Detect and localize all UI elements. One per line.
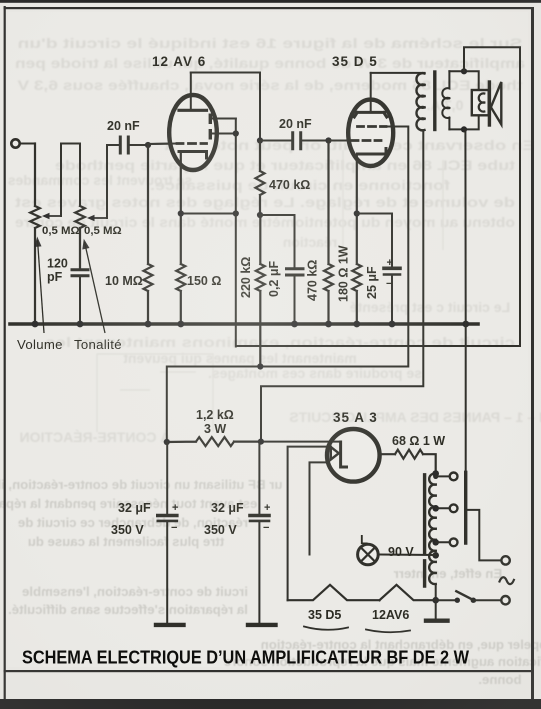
V2 plate: [354, 112, 386, 117]
V1 plate: [179, 109, 207, 112]
wire heater junction to switch: [436, 599, 455, 601]
wire C1 to bus: [79, 277, 81, 324]
tube V1 12AV6 envelope: [169, 95, 217, 170]
svg-text:35 A 3: 35 A 3: [333, 410, 378, 425]
svg-text:1,2 kΩ: 1,2 kΩ: [196, 408, 234, 422]
ground bus: [10, 322, 478, 326]
svg-text:470 kΩ: 470 kΩ: [269, 178, 310, 192]
svg-text:de volume et de réglage. Le ré: de volume et de réglage. Le réglage des …: [15, 194, 515, 210]
LS1 diaphragm bar: [488, 82, 491, 125]
capacitor C1 120 pF: [72, 270, 88, 276]
svg-text:180 Ω 1W: 180 Ω 1W: [337, 245, 351, 302]
svg-text:amplificateur de 3 W de bonne: amplificateur de 3 W de bonne qualité, q…: [15, 55, 525, 71]
svg-text:20 nF: 20 nF: [107, 119, 140, 133]
arrow Volume: [38, 240, 45, 333]
svg-text:tube ECL 86 en amplificateur e: tube ECL 86 en amplificateur et que la p…: [55, 157, 515, 173]
top black bar: [0, 0, 541, 3]
output transformer T1 primary winding: [416, 73, 424, 130]
filter capacitor C7 32 uF 350 V: [258, 442, 260, 514]
svg-text:32 μF: 32 μF: [118, 501, 151, 515]
V3 anode triangle: [331, 447, 339, 460]
svg-text:−: −: [386, 278, 392, 290]
V1 plate lead: [190, 73, 192, 111]
svg-text:220 kΩ: 220 kΩ: [239, 257, 253, 298]
svg-text:68 Ω 1 W: 68 Ω 1 W: [392, 434, 445, 448]
wire C3 to 35D5 grid node: [302, 140, 329, 142]
resistor R4 220 kohm (B+ feed): [256, 215, 265, 367]
input jack J1: [11, 139, 19, 147]
heater string: 12AV6 heater: [380, 585, 436, 600]
autotransformer T2 winding: [429, 473, 436, 584]
svg-text:−: −: [263, 522, 269, 534]
svg-text:thode ECL 86 moderne, de la sé: thode ECL 86 moderne, de la série noval,…: [17, 77, 523, 93]
frame top: [4, 7, 534, 9]
svg-text:Le circuit c est présenté: Le circuit c est présenté: [350, 299, 511, 315]
faint ghost figure outlines from reverse page: [97, 150, 443, 432]
V2 screen grid g2 (dashed): [358, 125, 387, 128]
T1 primary bottom lead to B+ raw: [261, 130, 423, 442]
V3 cathode bar: [341, 442, 347, 467]
svg-text:150 Ω: 150 Ω: [187, 274, 221, 288]
resistor R8 68 ohm 1W: [380, 450, 436, 474]
bottom black bar: [0, 699, 541, 709]
arrow Tonalite: [85, 242, 106, 333]
LS1 cone: [491, 82, 501, 124]
potentiometer P1 Volume 0,5 Mohm: [30, 144, 40, 325]
capacitor C3 20 nF: [293, 133, 301, 149]
svg-text:Volume: Volume: [17, 337, 63, 352]
T1 secondary winding + loop: [442, 71, 449, 129]
chassis ground C7: [248, 623, 276, 627]
svg-text:32 μF: 32 μF: [211, 501, 244, 515]
resistor R5 470 kohm (grid leak 35D5): [324, 141, 333, 325]
filter capacitor C6 32 uF 350 V: [166, 442, 168, 514]
T2 tap 3: [432, 539, 439, 546]
frame left: [4, 6, 6, 700]
svg-text:350 V: 350 V: [204, 523, 237, 537]
T2 tap 1: [433, 474, 438, 479]
svg-text:Sur le schéma de la figure 16: Sur le schéma de la figure 16 est indiqu…: [18, 35, 523, 51]
svg-text:20 nF: 20 nF: [279, 117, 312, 131]
T1 core: [433, 72, 436, 130]
resistor R3 470 kohm (plate load): [256, 141, 265, 216]
V2 cathode lead / resistor R6 180 ohm 1W: [352, 155, 361, 324]
wiper arrow P2: [90, 217, 107, 219]
svg-text:0,2 μF: 0,2 μF: [267, 261, 281, 297]
switch S1: [455, 598, 460, 603]
B+ raw wire (rectifier cathode to filter): [261, 441, 341, 443]
svg-text:120: 120: [47, 257, 68, 271]
wire 35D5 plate to output transformer: [371, 72, 425, 74]
wire C2 to grid node: [130, 144, 148, 146]
svg-text:0,5 MΩ: 0,5 MΩ: [42, 225, 80, 237]
svg-text:L: L: [360, 532, 368, 547]
filter resistor R7 1,2 kohm 3W: [167, 437, 261, 446]
bus junction dots: [32, 321, 470, 328]
svg-text:+: +: [264, 502, 270, 514]
V2 cathode: [358, 149, 387, 155]
svg-text:En effet, en interr: En effet, en interr: [394, 566, 502, 581]
rectifier V3 35A3 envelope: [327, 429, 380, 482]
potentiometer P2 Tonalite 0,5 Mohm: [75, 206, 85, 268]
wire C4 to bus: [294, 276, 296, 324]
svg-text:maintenant les pannes qui peuv: maintenant les pannes qui peuvent: [123, 350, 357, 366]
capacitor C2 20 nF: [120, 137, 128, 153]
svg-text:90 V: 90 V: [388, 545, 414, 559]
svg-text:Tonalité: Tonalité: [74, 337, 122, 352]
chassis ground C6: [156, 623, 184, 627]
capacitor C5 25 uF electrolytic: [384, 266, 400, 270]
chassis ground T2: [435, 600, 437, 618]
wire P2 wiper to C2: [107, 145, 119, 218]
svg-text:350 V: 350 V: [111, 523, 144, 537]
V1 cathode: [179, 152, 207, 159]
svg-text:pF: pF: [47, 270, 63, 284]
heater string: 35D5 heater: [288, 585, 380, 600]
V2 control grid g1 (dashed): [352, 139, 381, 142]
V1 diode plates: [209, 114, 212, 140]
wire cathode to C5: [357, 214, 392, 268]
mains terminal bottom: [501, 596, 509, 604]
wire V1 plate to plate-feed column: [191, 73, 260, 141]
feedback line secondary to V1 diode plates: [236, 47, 520, 346]
T2 90V tap to lamp: [432, 552, 439, 559]
wiper arrow P1: [45, 215, 61, 217]
svg-text:+: +: [387, 257, 393, 269]
resistor R1 10 Mohm: [144, 145, 153, 324]
frame right: [531, 7, 534, 700]
wire node to C4: [260, 215, 295, 268]
svg-text:10 MΩ: 10 MΩ: [105, 274, 143, 288]
wire C5 to bus: [391, 276, 393, 324]
wire anode to heater string: [288, 447, 331, 601]
AC mains symbol: [500, 577, 514, 584]
wire cathode-diode tie: [181, 213, 236, 215]
svg-text:470 kΩ: 470 kΩ: [306, 260, 320, 301]
wire to C3: [260, 140, 292, 142]
faint bleed-through text from reverse page (mirrored): [8, 35, 541, 445]
svg-text:12AV6: 12AV6: [372, 608, 409, 622]
wire V3 tap to pilot lamp: [310, 462, 329, 554]
svg-text:À CONTRE-RÉACTION: À CONTRE-RÉACTION: [20, 429, 171, 445]
wire jack to volume pot top: [20, 143, 35, 145]
svg-text:35 D 5: 35 D 5: [332, 54, 378, 69]
svg-text:12 AV 6: 12 AV 6: [152, 54, 206, 69]
wire P1 wiper to P2 top: [61, 144, 80, 217]
selector link wire to mains terminal: [468, 510, 502, 561]
mains terminal top: [501, 556, 509, 564]
V1 cathode lead / resistor R2 150 ohm: [176, 153, 185, 324]
T2 bottom lead to heater line: [435, 584, 437, 600]
svg-text:−: −: [171, 522, 177, 534]
svg-text:0,5 MΩ: 0,5 MΩ: [84, 225, 122, 237]
pilot lamp L 90V: [358, 544, 379, 565]
T2 tap 2: [432, 505, 439, 512]
svg-text:III – 1 – PANNES DES AMPLI. CI: III – 1 – PANNES DES AMPLI. CIRCUITS: [289, 409, 541, 425]
wire grid node to 12AV6 g1: [148, 143, 176, 146]
V2 g1 lead: [329, 140, 353, 142]
V1 diode plate leads: [212, 119, 236, 134]
T2 core bar: [423, 475, 426, 586]
node grid 12AV6: [145, 142, 151, 148]
svg-text:ircuit de contre-réaction, l'e: ircuit de contre-réaction, l'ensemble: [22, 584, 248, 599]
capacitor C4 0,2 uF: [287, 269, 304, 275]
heater label underline arcs: [304, 627, 348, 630]
tube V2 35D5 envelope: [348, 100, 393, 166]
svg-text:la réparation s'effectue sans: la réparation s'effectue sans difficulté…: [8, 602, 248, 617]
svg-text:35 D5: 35 D5: [308, 608, 341, 622]
V2 plate lead: [370, 73, 372, 112]
svg-text:3 W: 3 W: [204, 422, 226, 436]
svg-text:bonne.: bonne.: [478, 672, 521, 687]
svg-text:SCHEMA ELECTRIQUE D’UN AMPLIFI: SCHEMA ELECTRIQUE D’UN AMPLIFICATEUR BF …: [22, 648, 469, 668]
LS1 voice coil bumps: [479, 93, 485, 111]
node decoupling: [257, 212, 263, 218]
svg-text:+: +: [172, 502, 178, 514]
loudspeaker LS1 voice-coil box: [472, 90, 489, 115]
svg-text:ur BF utilisant un circuit de: ur BF utilisant un circuit de contre-réa…: [0, 477, 283, 492]
node plate V1: [257, 137, 263, 143]
V2 g2 lead down to B+ line: [167, 127, 408, 443]
frame bottom: [4, 670, 534, 672]
voltage selector bar: [464, 472, 467, 543]
V1 grid (dashed): [148, 143, 176, 146]
svg-text:25 μF: 25 μF: [365, 266, 379, 299]
wire secondary bottom to bus and selector bar: [464, 129, 466, 472]
